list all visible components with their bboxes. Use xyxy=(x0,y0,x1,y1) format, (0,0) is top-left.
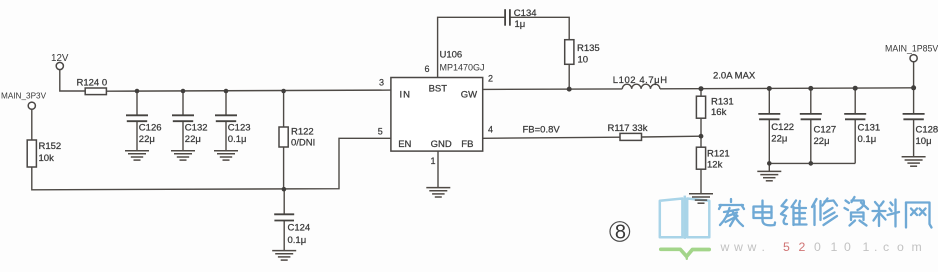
svg-text:0: 0 xyxy=(844,240,851,254)
svg-text:4: 4 xyxy=(488,125,493,135)
svg-text:1μ: 1μ xyxy=(515,19,526,30)
svg-text:C124: C124 xyxy=(288,223,311,234)
svg-text:2: 2 xyxy=(488,74,493,84)
svg-text:5: 5 xyxy=(378,127,383,137)
svg-text:C123: C123 xyxy=(228,122,251,133)
svg-text:GND: GND xyxy=(431,139,452,150)
svg-text:C132: C132 xyxy=(185,122,208,133)
svg-text:R124 0: R124 0 xyxy=(77,77,108,88)
svg-text:.: . xyxy=(874,240,877,254)
svg-text:0.1μ: 0.1μ xyxy=(228,134,247,145)
svg-text:L102 4.7μH: L102 4.7μH xyxy=(613,75,668,86)
svg-text:10μ: 10μ xyxy=(916,136,932,147)
svg-text:2: 2 xyxy=(799,240,806,254)
svg-text:0.1μ: 0.1μ xyxy=(858,134,877,145)
svg-text:2.0A MAX: 2.0A MAX xyxy=(713,70,756,81)
svg-text:1: 1 xyxy=(863,240,870,254)
svg-text:C134: C134 xyxy=(514,8,537,19)
svg-text:10: 10 xyxy=(578,55,589,66)
svg-text:C128: C128 xyxy=(916,125,938,136)
svg-text:0: 0 xyxy=(814,240,821,254)
svg-text:R131: R131 xyxy=(711,96,734,107)
svg-text:C122: C122 xyxy=(771,122,794,133)
svg-text:16k: 16k xyxy=(711,107,727,118)
svg-text:MAIN_3P3V: MAIN_3P3V xyxy=(1,92,47,101)
svg-text:w: w xyxy=(733,240,743,254)
svg-text:R122: R122 xyxy=(291,127,314,138)
svg-text:R135: R135 xyxy=(577,43,600,54)
svg-text:10k: 10k xyxy=(39,153,55,164)
svg-text:12V: 12V xyxy=(51,53,69,64)
svg-text:5: 5 xyxy=(783,240,790,254)
svg-text:MAIN_1P85V: MAIN_1P85V xyxy=(885,44,938,54)
svg-text:3: 3 xyxy=(379,78,384,88)
svg-text:1: 1 xyxy=(431,156,436,166)
svg-text:C126: C126 xyxy=(139,122,162,133)
svg-text:R117 33k: R117 33k xyxy=(608,123,648,134)
svg-text:FB: FB xyxy=(461,139,473,150)
svg-text:12k: 12k xyxy=(707,160,723,171)
svg-text:U106: U106 xyxy=(440,50,463,61)
svg-text:EN: EN xyxy=(398,139,411,150)
svg-text:GW: GW xyxy=(461,90,477,101)
svg-text:22μ: 22μ xyxy=(139,134,155,145)
svg-text:w: w xyxy=(747,240,757,254)
svg-text:FB=0.8V: FB=0.8V xyxy=(523,124,561,135)
svg-text:.: . xyxy=(762,240,765,254)
svg-text:22μ: 22μ xyxy=(185,134,201,145)
svg-text:R121: R121 xyxy=(707,149,730,160)
svg-text:R152: R152 xyxy=(39,141,62,152)
svg-text:c: c xyxy=(883,240,889,254)
svg-text:C131: C131 xyxy=(858,123,881,134)
svg-text:IN: IN xyxy=(400,89,412,100)
svg-text:0.1μ: 0.1μ xyxy=(288,235,307,246)
svg-text:0/DNI: 0/DNI xyxy=(291,138,315,149)
svg-text:m: m xyxy=(912,240,922,254)
svg-text:6: 6 xyxy=(425,64,430,74)
svg-text:MP1470GJ: MP1470GJ xyxy=(440,63,485,73)
svg-text:22μ: 22μ xyxy=(814,136,830,147)
svg-text:w: w xyxy=(720,240,730,254)
svg-text:o: o xyxy=(897,240,904,254)
svg-text:8: 8 xyxy=(615,222,626,244)
svg-text:1: 1 xyxy=(831,240,838,254)
svg-text:22μ: 22μ xyxy=(771,134,787,145)
svg-text:BST: BST xyxy=(429,83,448,94)
svg-text:C127: C127 xyxy=(814,125,837,136)
